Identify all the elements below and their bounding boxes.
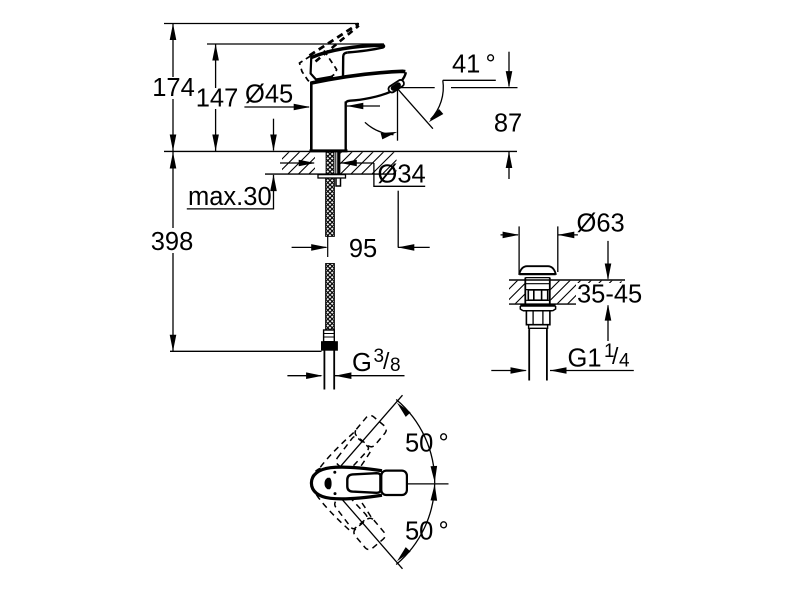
handle centerline right	[408, 483, 449, 485]
svg-text:174: 174	[152, 74, 195, 102]
svg-text:/: /	[612, 343, 619, 369]
drain counter bottom line	[509, 303, 620, 305]
dashed handle rotated down	[304, 461, 390, 554]
svg-text:G1: G1	[568, 345, 602, 373]
aerator core	[390, 81, 402, 91]
dimension G1 1/4 arrow left	[491, 370, 526, 372]
svg-text:/: /	[383, 348, 390, 374]
handle dot top	[333, 471, 336, 474]
countertop bottom line	[265, 173, 396, 175]
drain tailpipe	[529, 329, 547, 380]
handle lever grip	[381, 471, 407, 495]
handle dot bottom	[334, 492, 337, 495]
dimension 174 vertical line	[172, 24, 174, 152]
drain counter top line	[509, 279, 625, 281]
aerator vertical reference line	[397, 88, 399, 140]
dimension 174 extension line top	[164, 23, 359, 25]
cartridge dome	[311, 57, 333, 80]
handle inner opening	[347, 473, 380, 493]
water stream diagonal	[397, 88, 433, 128]
aerator level line left segment	[399, 87, 435, 89]
raised lever dashed top line	[310, 24, 359, 56]
dimension max.30 leader	[187, 175, 274, 209]
hose end threaded section	[324, 330, 335, 342]
handle top view solid outline	[311, 467, 382, 499]
dimension 41deg reference line	[443, 79, 496, 81]
handle diagonal upper	[341, 395, 403, 466]
raised dome dashed left outline	[300, 56, 314, 84]
41deg arc upper	[431, 80, 444, 119]
svg-text:147: 147	[196, 85, 239, 113]
drain counter hatch right	[551, 281, 622, 304]
svg-text:398: 398	[151, 228, 194, 256]
dimension Ø63 arrow left	[501, 234, 519, 236]
label 174	[152, 77, 196, 99]
faucet threaded shank in counter hole	[326, 152, 334, 174]
label 35-45	[576, 283, 638, 305]
dimension 398 vertical line	[172, 152, 174, 351]
dimension 35-45 top arrow	[607, 241, 609, 279]
hose end nut G3/8	[322, 342, 338, 351]
label 398	[149, 228, 196, 253]
raised lever dashed bottom line	[316, 26, 359, 62]
spout underside	[346, 92, 391, 104]
dashed handle rotated up	[306, 411, 392, 504]
Ø63 extension line right	[557, 226, 559, 272]
dimension G3/8 arrow left	[287, 375, 321, 377]
svg-text:G: G	[352, 349, 372, 377]
handle diagonal lower	[341, 498, 403, 569]
handle arc upper	[396, 400, 435, 484]
drain body slot lines	[526, 284, 549, 301]
svg-text:95: 95	[349, 235, 377, 263]
drain cap dome	[519, 266, 555, 274]
dimension Ø34 leader	[374, 163, 425, 186]
braided hose upper segment	[326, 178, 335, 236]
svg-text:Ø45: Ø45	[245, 81, 293, 109]
dimension 87 bottom arrow	[508, 152, 510, 180]
countertop hatch right of faucet	[341, 152, 397, 173]
svg-text:50 °: 50 °	[405, 430, 449, 458]
drain nut lower step	[529, 325, 548, 330]
svg-text:max.30: max.30	[188, 183, 272, 211]
label 147	[196, 88, 238, 109]
lever blade tip and underside	[347, 45, 384, 52]
countertop top surface line	[164, 150, 517, 152]
aerator level line right segment	[451, 87, 518, 89]
braided hose lower segment	[326, 264, 335, 331]
lever blade	[311, 45, 382, 57]
dimension Ø63 arrow right	[558, 234, 578, 236]
dimension 95 line left	[292, 246, 327, 248]
supply tube	[324, 350, 334, 389]
raised dome dashed right outline	[324, 51, 337, 77]
svg-text:50 °: 50 °	[405, 518, 449, 546]
svg-text:4: 4	[619, 351, 630, 372]
aerator housing	[387, 79, 405, 94]
lever neck	[343, 53, 347, 78]
svg-text:35-45: 35-45	[577, 281, 642, 309]
svg-text:8: 8	[390, 355, 401, 376]
svg-text:Ø63: Ø63	[577, 210, 625, 238]
handle arc lower	[396, 483, 435, 564]
dimension Ø45 arrow right	[347, 105, 380, 107]
dimension 35-45 bottom arrow	[607, 305, 609, 341]
dimension 147 vertical line	[215, 44, 217, 151]
faucet body	[310, 82, 313, 151]
dimension 95 vertical reference line	[397, 191, 399, 248]
axis line in hose gap	[327, 236, 329, 257]
reference arrow at counter	[273, 119, 275, 151]
drain overflow windows	[528, 290, 547, 300]
second hose in counter hole	[337, 152, 340, 174]
handle marker blob	[325, 478, 332, 489]
dimension 95 line right	[398, 246, 430, 248]
drain locknut	[526, 311, 550, 325]
drain flange under counter	[520, 306, 555, 311]
mounting washer plate under counter	[318, 175, 346, 178]
fixing tab right of stud	[336, 178, 341, 186]
svg-text:41 °: 41 °	[452, 51, 496, 79]
drain cap lower rim	[525, 277, 550, 279]
svg-text:87: 87	[494, 110, 522, 138]
Ø63 extension line left	[518, 226, 520, 274]
svg-text:Ø34: Ø34	[378, 161, 426, 189]
dimension G3/8 arrow right	[335, 375, 405, 377]
drain body through counter	[525, 278, 550, 305]
dimension 147 extension line	[207, 43, 384, 45]
spout top edge	[311, 71, 405, 83]
spout tip face	[401, 72, 406, 81]
faucet body bottom edge	[310, 149, 348, 152]
dimension Ø45 arrow left	[244, 106, 309, 108]
dimension 398 extension line bottom	[170, 350, 322, 352]
dimension 87 top arrow	[508, 52, 510, 87]
dimension G1 1/4 arrow right	[550, 370, 634, 372]
dimension Ø34 arrow left	[280, 162, 314, 164]
dimension Ø34 arrow right	[340, 162, 374, 164]
41deg arc lower	[365, 122, 394, 134]
drain cap brim	[519, 273, 555, 275]
countertop hatch left of faucet	[282, 152, 315, 173]
drain counter hatch left	[509, 281, 525, 304]
